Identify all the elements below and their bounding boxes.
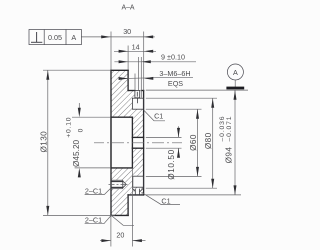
arrow Ø94 top [234,90,237,100]
arrow Ø130 top [46,70,49,80]
svg-text:–0.036: –0.036 [219,116,226,142]
M6 radial hole bottom (white cutout) [135,189,141,195]
ext line left face top [110,32,112,71]
dim line Ø130 [47,70,49,215]
bore mouth edge on left face [110,117,112,168]
ext line step face [127,46,129,71]
svg-text:2–C1: 2–C1 [85,186,102,195]
ext line Ø80 top [146,97,217,99]
dim line 30 with FCF leader [81,36,111,38]
dim line Ø10.50 [178,126,180,137]
svg-text:Ø60: Ø60 [189,134,198,151]
svg-text:Ø45.20: Ø45.20 [72,139,81,167]
svg-text:20: 20 [116,230,124,239]
datum A circle [227,64,243,80]
flange bottom face [111,214,128,216]
arrow 30 right [144,35,154,38]
svg-text:0: 0 [78,128,85,132]
svg-text:Ø94: Ø94 [224,147,233,164]
svg-text:14: 14 [132,42,140,51]
ext line M6 thread right [140,57,142,98]
svg-text:A–A: A–A [121,5,134,12]
M6 radial hole top outline [135,91,140,98]
arrowheads [46,35,236,242]
flange step face bottom [127,195,129,216]
arrow Ø60 bottom [196,167,199,177]
dim line Ø45.20 [78,103,80,115]
thin lines: dimensions, extensions, leaders [29,30,248,247]
bore bottom face [131,117,133,168]
arrow 20 left [101,239,111,242]
leader 2-C1 lower [85,215,112,223]
ext line Ø10.50 top [146,136,182,138]
ext line 20 left [110,215,112,246]
hub bottom surface [128,194,144,196]
svg-text:0.05: 0.05 [48,33,62,42]
svg-text:Ø10.50: Ø10.50 [167,149,176,179]
hatch flange top [111,70,128,117]
M6 axial hole end [122,180,124,188]
arrow 20 right [132,239,142,242]
hatch hub top [128,91,144,118]
centerline of M6 axial hole [109,183,128,185]
ext line right face top [143,32,145,91]
M6 radial hole top center tick [136,92,138,97]
arrow Ø60 top [196,109,199,119]
svg-text:30: 30 [123,27,131,36]
groove recess top center tick [136,98,138,103]
ext line Ø60 top [146,108,202,110]
leader C1 top [144,110,165,121]
hole Ø10.50 (white cutout) [132,137,143,148]
ext line Ø130 bottom [43,214,115,216]
arrow Ø94 bottom [234,185,237,195]
ext line Ø10.50 bottom [146,147,182,149]
arrow 30 left (FCF leader) [101,35,111,38]
groove recess top outline [132,98,143,109]
leader 2-C1 upper [85,188,112,195]
part right face [143,91,145,195]
arrow Ø10.50 bottom [177,148,180,158]
dim line 14 [114,50,156,52]
svg-text:A: A [71,33,76,42]
ext line Ø45.20 bottom [75,167,111,169]
hatch flange bottom [111,168,128,216]
M6 radial hole bottom drill diagonals [132,188,135,191]
leader C1 bottom [142,192,181,204]
dim line 9 +-0.10 [114,61,196,63]
arrow 3-M6-6H leader [119,77,129,80]
arrow 9 left-pointing [141,60,151,63]
svg-text:+0.10: +0.10 [66,117,73,138]
arrow 9 right-pointing [119,60,129,63]
groove recess bottom (white cutout) [133,176,144,187]
svg-text:EQS: EQS [168,79,183,88]
perpendicularity symbol [36,32,38,42]
arrow Ø80 top [211,98,214,108]
flange top face [111,69,128,71]
ext line Ø130 top [43,69,111,71]
ext line M6 thread left [134,74,136,91]
svg-text:3–M6–6H: 3–M6–6H [159,69,190,78]
ext line Ø94 bottom [146,194,241,196]
arrow Ø45.20 top [78,108,81,118]
bore Ø45.20 bottom wall [111,167,132,169]
arrow Ø10.50 top [177,128,180,137]
svg-text:C1: C1 [161,196,170,205]
part left face [110,70,112,215]
M6 axial hole thread walls [111,179,123,181]
flange step face top [127,70,129,90]
groove recess bottom outline [133,176,144,187]
svg-text:Ø130: Ø130 [39,131,48,153]
svg-text:C1: C1 [154,111,163,120]
dim line Ø60 [197,109,199,176]
datum A filled bar [226,87,244,90]
ext line Ø60 bottom [146,175,202,177]
extra leader segment at bottom corner [111,215,134,225]
dim line 20 [100,240,111,242]
M6 axial hole drill point [123,181,126,184]
datum A stem [234,80,236,87]
ext line Ø80 bottom [146,187,217,189]
svg-text:9 ±0.10: 9 ±0.10 [161,52,185,61]
hub top surface [128,90,135,92]
dim line Ø94 [234,90,236,195]
arrow 14 right [144,50,154,53]
hole Ø10.50 top wall [132,136,143,138]
svg-text:–0.071: –0.071 [226,116,233,142]
ext line Ø94 top / datum line [146,89,248,91]
FCF frame [29,30,81,45]
bore Ø45.20 top wall [111,116,132,118]
svg-text:2–C1: 2–C1 [85,216,102,225]
leader 3-M6-6H [119,77,193,80]
hole Ø10.50 bottom wall [132,147,143,149]
groove recess top (white cutout) [132,98,143,109]
M6 radial hole top (white cutout) [135,90,141,98]
svg-text:A: A [233,68,238,77]
M6 axial tapped hole bottom-left (white cutout) [111,180,126,188]
hatch hub bottom [128,168,144,195]
ext line Ø45.20 top [72,116,111,118]
arrow Ø45.20 bottom [78,168,81,178]
arrow Ø130 bottom [46,206,49,216]
arrow Ø80 bottom [211,179,214,189]
arrow 14 left [119,50,129,53]
ext line 20 right [131,168,133,247]
svg-text:Ø80: Ø80 [204,132,213,149]
M6 radial hole bottom walls [134,189,136,195]
dim line Ø80 [212,98,214,188]
hatch wall right of bore [132,117,143,168]
centerline of part axis [94,142,182,144]
